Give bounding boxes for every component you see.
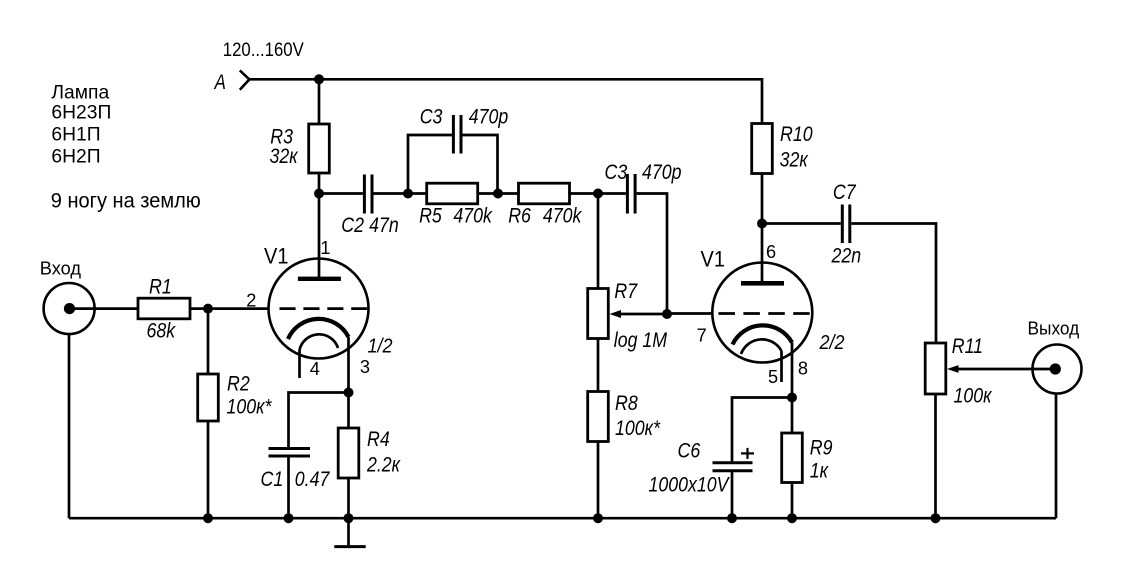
- wire C1 bottom: [287, 456, 290, 518]
- svg-text:C3: C3: [420, 105, 443, 129]
- capacitor C3 (second): [627, 174, 635, 214]
- resistor R5: [427, 183, 478, 204]
- label plus C6: [741, 448, 754, 459]
- svg-text:1/2: 1/2: [368, 336, 393, 358]
- wire R9 bottom: [791, 483, 794, 519]
- node R5/R6 junction: [493, 189, 503, 199]
- tube V1a envelope: [269, 259, 369, 359]
- ground: [347, 518, 350, 545]
- wire C3 left riser: [408, 135, 452, 194]
- svg-text:6Н23П: 6Н23П: [51, 103, 111, 124]
- svg-text:6Н2П: 6Н2П: [51, 146, 100, 167]
- wire input to R1: [69, 307, 138, 310]
- resistor R3: [309, 124, 330, 173]
- wire C7 to R11: [851, 224, 936, 344]
- capacitor C1: [269, 449, 311, 457]
- tube V1a anode: [298, 277, 341, 281]
- svg-text:1: 1: [320, 238, 330, 258]
- tube V1b grid (dashed): [719, 312, 813, 315]
- node R10/C7/anode junction: [757, 219, 767, 229]
- svg-text:470k: 470k: [543, 204, 583, 228]
- node rail R9: [787, 513, 797, 523]
- wire to C6: [732, 398, 792, 463]
- wire anode V1a: [318, 194, 321, 278]
- svg-text:120...160V: 120...160V: [223, 38, 305, 61]
- node rail R2: [203, 513, 213, 523]
- wire node to C3b: [598, 192, 626, 195]
- node cathode junction V1a: [344, 388, 354, 398]
- node A input chevron: [240, 70, 250, 89]
- wire R7 wiper arrow: [614, 313, 667, 316]
- svg-text:Выход: Выход: [1028, 318, 1080, 339]
- svg-text:R11: R11: [952, 334, 983, 358]
- wire R5 to node: [478, 192, 498, 195]
- tube V1a cathode: [288, 319, 349, 339]
- svg-text:100к*: 100к*: [227, 395, 273, 419]
- tube V1b cathode: [733, 325, 793, 344]
- node rail R11: [931, 513, 941, 523]
- svg-text:4: 4: [310, 359, 320, 379]
- node R3/C2/anode junction: [314, 189, 324, 199]
- wire R8 bottom: [597, 442, 600, 519]
- wire R3 top: [318, 79, 321, 124]
- svg-text:100к*: 100к*: [615, 416, 661, 440]
- capacitor C7: [842, 205, 850, 244]
- svg-text:C1: C1: [261, 467, 284, 491]
- resistor R10: [752, 124, 773, 174]
- wire node to C7: [762, 222, 841, 225]
- wire R10 bottom: [761, 174, 764, 224]
- wire cathode lead pin3: [347, 337, 350, 393]
- svg-text:R9: R9: [810, 436, 833, 460]
- wire R4 top: [347, 393, 350, 429]
- svg-text:470p: 470p: [642, 160, 682, 184]
- svg-text:68k: 68k: [147, 319, 177, 343]
- node grid junction V1b: [662, 309, 672, 319]
- svg-text:3: 3: [360, 357, 370, 377]
- svg-text:32к: 32к: [270, 144, 299, 168]
- resistor R1: [138, 298, 190, 319]
- svg-text:1000x10V: 1000x10V: [649, 473, 731, 497]
- tube V1b envelope: [712, 263, 812, 363]
- svg-text:5: 5: [768, 367, 778, 387]
- node rail C1: [284, 513, 294, 523]
- wire output down: [1055, 394, 1058, 519]
- svg-text:Лампа: Лампа: [51, 82, 109, 103]
- wire to C2: [319, 192, 363, 195]
- tube V1a heater: [300, 334, 339, 350]
- wire R7 to R8: [597, 339, 600, 392]
- svg-text:32к: 32к: [780, 148, 809, 172]
- tube V1b anode: [741, 281, 784, 286]
- svg-text:R6: R6: [508, 204, 531, 228]
- wire R1 to node: [190, 307, 208, 310]
- wire input down: [68, 334, 71, 518]
- resistor R6: [519, 183, 570, 204]
- svg-text:6: 6: [766, 242, 776, 262]
- svg-text:0.47: 0.47: [295, 467, 331, 491]
- svg-text:log 1M: log 1M: [614, 329, 668, 353]
- svg-text:R5: R5: [419, 204, 442, 228]
- connector input Вход: [44, 283, 95, 334]
- svg-text:R1: R1: [149, 275, 172, 299]
- svg-text:C7: C7: [833, 180, 857, 204]
- svg-text:R7: R7: [614, 280, 638, 304]
- wire heater lead pin4: [298, 350, 301, 378]
- wire C3b to grid node: [637, 194, 667, 315]
- wire R9 top: [791, 398, 794, 434]
- svg-text:22n: 22n: [831, 244, 862, 268]
- svg-text:9 ногу на землю: 9 ногу на землю: [51, 189, 201, 213]
- resistor R9: [782, 433, 803, 483]
- node cathode junction V1b: [787, 393, 797, 403]
- wire C2 to node: [374, 192, 409, 195]
- svg-text:R10: R10: [780, 123, 813, 147]
- svg-text:8: 8: [798, 359, 808, 379]
- wire node to R6: [498, 192, 519, 195]
- node R6/C3b/R7 junction: [593, 189, 603, 199]
- svg-text:2/2: 2/2: [819, 332, 845, 354]
- svg-text:V1: V1: [264, 245, 288, 269]
- svg-text:C3: C3: [605, 160, 628, 184]
- wire R2 bottom: [207, 421, 210, 518]
- svg-text:Вход: Вход: [40, 259, 82, 279]
- svg-text:C6: C6: [678, 439, 701, 463]
- wire node to R5: [408, 192, 427, 195]
- wire cathode lead pin8: [791, 343, 794, 398]
- wire to C1: [289, 393, 349, 449]
- svg-text:6Н1П: 6Н1П: [51, 124, 100, 145]
- wire R11 wiper arrow: [952, 368, 1053, 371]
- node rail R8: [593, 513, 603, 523]
- potentiometer R11: [925, 343, 946, 394]
- svg-text:V1: V1: [701, 247, 725, 271]
- wire grid V1a: [208, 307, 269, 310]
- node top-rail R3 junction: [314, 74, 324, 84]
- capacitor C2: [364, 175, 372, 214]
- node R1/R2/grid junction: [203, 304, 213, 314]
- wire grid V1b: [667, 312, 713, 315]
- wire R4 bottom: [347, 478, 350, 518]
- svg-text:100к: 100к: [954, 384, 993, 408]
- wire R3 bottom: [318, 173, 321, 194]
- capacitor C6 plates: [713, 463, 753, 471]
- node rail C6: [727, 513, 737, 523]
- svg-text:47n: 47n: [369, 213, 399, 237]
- svg-text:7: 7: [697, 326, 707, 346]
- node C2/R5/C3 junction: [403, 189, 413, 199]
- capacitor C3 (over R5): [453, 115, 461, 154]
- wire R2 top: [207, 309, 210, 374]
- svg-text:R2: R2: [227, 372, 250, 396]
- svg-text:C2: C2: [341, 213, 364, 237]
- svg-text:470k: 470k: [453, 204, 493, 228]
- svg-text:1к: 1к: [810, 459, 829, 483]
- wire R11 bottom: [934, 394, 937, 518]
- svg-text:R8: R8: [615, 392, 638, 416]
- tube V1b heater: [741, 339, 782, 354]
- connector output Выход: [1033, 345, 1082, 394]
- wire top rail A to R10 corner: [249, 79, 762, 123]
- svg-text:2: 2: [246, 291, 256, 311]
- svg-text:A: A: [214, 70, 226, 94]
- resistor R8: [588, 392, 609, 442]
- wire R7 top: [597, 194, 600, 289]
- wire anode V1b: [761, 224, 764, 284]
- potentiometer R7: [588, 289, 609, 339]
- wire heater lead pin5: [780, 351, 783, 382]
- wire C3 right riser: [463, 135, 498, 194]
- resistor R2: [198, 374, 219, 421]
- wire C6 bottom: [731, 471, 734, 518]
- resistor R4: [338, 428, 359, 478]
- wire bottom rail: [69, 517, 1056, 520]
- svg-text:R4: R4: [367, 427, 390, 451]
- wire R6 to node: [570, 192, 599, 195]
- node rail R4: [344, 513, 354, 523]
- svg-text:2.2к: 2.2к: [366, 453, 401, 477]
- tube V1a grid (dashed): [280, 307, 369, 310]
- svg-text:470p: 470p: [469, 105, 509, 129]
